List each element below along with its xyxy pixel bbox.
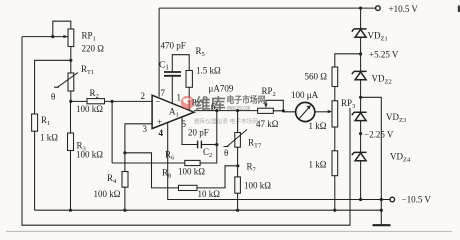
svg-text:A1: A1 bbox=[169, 107, 179, 119]
capacitor C2 20pF bbox=[198, 141, 202, 149]
node pin3 net bbox=[123, 151, 126, 154]
watermark logo ball bbox=[181, 96, 195, 110]
wire +10.5V top rail bbox=[159, 7, 375, 9]
resistor R4 bbox=[122, 172, 128, 188]
svg-text:100 μA: 100 μA bbox=[291, 90, 319, 100]
svg-text:100 kΩ: 100 kΩ bbox=[244, 181, 271, 191]
svg-text:−: − bbox=[156, 97, 161, 107]
potentiometer RP1 wiper arrow bbox=[63, 36, 68, 38]
resistor R6 bbox=[185, 160, 200, 165]
svg-text:10 kΩ: 10 kΩ bbox=[198, 189, 221, 199]
wire zener mid to ground column bbox=[361, 97, 382, 225]
node bus R7 bbox=[236, 209, 239, 212]
svg-text:220 Ω: 220 Ω bbox=[82, 44, 105, 54]
svg-text:μA709: μA709 bbox=[209, 84, 234, 94]
resistor R7 bbox=[235, 177, 241, 193]
svg-text:560 Ω: 560 Ω bbox=[305, 72, 328, 82]
node RP2 right bbox=[282, 109, 285, 112]
wire C1 bottom to pin 1 bbox=[171, 76, 173, 104]
wire 1k bottom to bus bbox=[334, 176, 336, 211]
terminal -10.5V bbox=[390, 197, 395, 202]
svg-text:3: 3 bbox=[143, 124, 148, 134]
svg-text:VDZ4: VDZ4 bbox=[390, 152, 411, 164]
svg-text:−2.25 V: −2.25 V bbox=[364, 130, 394, 140]
wire RP1 wiper line from left rail bbox=[22, 36, 64, 38]
svg-text:100 kΩ: 100 kΩ bbox=[94, 189, 121, 199]
wire RT7 to R7 bbox=[237, 147, 239, 177]
svg-text:7: 7 bbox=[161, 88, 166, 98]
svg-text:维库仪器仪表 电子市场网: 维库仪器仪表 电子市场网 bbox=[194, 118, 258, 126]
svg-text:RP3: RP3 bbox=[341, 98, 355, 110]
svg-text:RT7: RT7 bbox=[248, 138, 262, 150]
wire RT1 bottom to node bbox=[70, 91, 72, 101]
svg-text:+: + bbox=[157, 117, 162, 127]
svg-text:6: 6 bbox=[211, 102, 216, 112]
svg-text:WWW.DZSC.COM: WWW.DZSC.COM bbox=[227, 106, 250, 112]
wire 560 to RP3 bbox=[334, 87, 336, 101]
svg-text:R8: R8 bbox=[162, 167, 171, 179]
node output at C2 column bbox=[215, 109, 218, 112]
node R7 top bbox=[236, 164, 239, 167]
svg-text:C1: C1 bbox=[159, 61, 169, 72]
scan artifact bottom line bbox=[6, 230, 452, 232]
wire pin2 net drop to R6 row bbox=[111, 101, 113, 163]
meter 100uA bbox=[296, 102, 315, 121]
wire C1/R5 top link bbox=[172, 55, 189, 72]
wire node to R1 top bbox=[35, 60, 71, 114]
zener diode VDZ4 bbox=[352, 152, 367, 160]
wire R6 right to output column bbox=[200, 111, 217, 163]
wire meter to RP3 wiper bbox=[315, 111, 329, 113]
svg-text:100 kΩ: 100 kΩ bbox=[76, 104, 103, 114]
svg-text:VDZ1: VDZ1 bbox=[368, 31, 388, 43]
wire -10.5V row bbox=[335, 199, 390, 201]
node bus ground column bbox=[380, 209, 383, 212]
node bus R3 bbox=[69, 209, 72, 212]
wire R5 bottom to pin 8 bbox=[188, 87, 190, 110]
node -2.25V bbox=[359, 132, 362, 135]
svg-text:C2: C2 bbox=[203, 147, 212, 159]
resistor R5 bbox=[186, 71, 192, 88]
watermark text bbox=[194, 94, 266, 126]
node RP1 bottom bbox=[69, 59, 72, 62]
zener diode VDZ1 bbox=[352, 29, 367, 37]
resistor R2 bbox=[87, 99, 105, 104]
svg-text:RP1: RP1 bbox=[82, 31, 96, 43]
wire C2 to output column bbox=[201, 144, 216, 146]
svg-text:5: 5 bbox=[182, 119, 187, 129]
node bus 1k column bbox=[333, 209, 336, 212]
svg-text:47 kΩ: 47 kΩ bbox=[256, 119, 279, 129]
svg-text:R1: R1 bbox=[41, 115, 50, 127]
wire ground bus bbox=[35, 209, 382, 211]
resistor R1 bbox=[32, 114, 38, 131]
wire op-amp pin 3 row bbox=[125, 124, 152, 153]
ground bbox=[373, 224, 391, 226]
svg-text:4: 4 bbox=[159, 128, 164, 138]
node bus R4 bbox=[123, 209, 126, 212]
op-amp A (uA709) bbox=[152, 95, 194, 128]
resistor 560 ohm bbox=[332, 67, 338, 87]
svg-text:100 kΩ: 100 kΩ bbox=[76, 150, 103, 160]
potentiometer RP3 bbox=[332, 101, 338, 127]
resistor 1k lower bbox=[332, 151, 338, 176]
thermistor RT1 bbox=[68, 73, 74, 91]
thermistor RT7 bbox=[237, 111, 239, 133]
svg-text:R6: R6 bbox=[165, 150, 175, 162]
svg-text:VDZ3: VDZ3 bbox=[386, 112, 406, 124]
svg-text:2: 2 bbox=[141, 91, 146, 101]
wire RP2 to meter bbox=[273, 111, 295, 112]
wire R6 row left bbox=[112, 162, 185, 164]
svg-text:+5.25 V: +5.25 V bbox=[369, 50, 399, 60]
wire node to R2 bbox=[71, 100, 87, 102]
wire zener chain column bbox=[360, 8, 362, 199]
svg-text:470 pF: 470 pF bbox=[161, 41, 186, 51]
node zener bottom bbox=[359, 198, 362, 201]
node ground at -10.5 row bbox=[380, 198, 383, 201]
svg-text:θ: θ bbox=[51, 92, 55, 102]
svg-text:1.5 kΩ: 1.5 kΩ bbox=[196, 66, 221, 76]
node zener mid ground tap bbox=[359, 96, 362, 99]
wire R2 to op-amp pin 2 bbox=[105, 100, 153, 102]
wire pin3 node to R4 bbox=[124, 153, 126, 172]
wire node to R3 bbox=[70, 101, 72, 133]
wire R1 bottom to bus bbox=[34, 131, 36, 210]
svg-text:100 kΩ: 100 kΩ bbox=[178, 167, 205, 177]
node +5.25V bbox=[359, 52, 362, 55]
svg-text:RT1: RT1 bbox=[81, 64, 94, 76]
wire R3 bottom to bus bbox=[70, 151, 72, 211]
zener diode VDZ2 bbox=[352, 71, 367, 79]
resistor R8 bbox=[179, 185, 198, 190]
svg-text:8: 8 bbox=[192, 98, 197, 108]
svg-text:1 kΩ: 1 kΩ bbox=[309, 121, 327, 131]
wire pin3 node to R8 row bbox=[125, 153, 179, 188]
potentiometer RP1 bbox=[68, 29, 74, 47]
wire RP3 to 1k bbox=[334, 127, 336, 151]
svg-text:1 kΩ: 1 kΩ bbox=[309, 160, 327, 170]
node output to RT7 column bbox=[236, 109, 239, 112]
wire op-amp pin 4 drop bbox=[168, 123, 335, 200]
svg-text:电子市场网: 电子市场网 bbox=[227, 94, 266, 105]
svg-text:θ: θ bbox=[224, 148, 228, 158]
wire +5.25V tap to 560 ohm column bbox=[335, 54, 361, 67]
wire output row bbox=[194, 110, 258, 112]
svg-text:+10.5 V: +10.5 V bbox=[389, 4, 419, 14]
svg-text:−10.5 V: −10.5 V bbox=[402, 195, 432, 205]
svg-text:R5: R5 bbox=[196, 46, 205, 58]
wire RP1 feedback loop bbox=[53, 21, 71, 36]
wire R4 bottom to bus bbox=[124, 187, 126, 210]
node RP1 wiper junction bbox=[51, 35, 54, 38]
svg-text:20 pF: 20 pF bbox=[188, 128, 209, 138]
node pin2 net bbox=[111, 100, 114, 103]
resistor R3 bbox=[68, 133, 74, 151]
scan artifact right edge tick bbox=[458, 6, 460, 13]
wire R7 bottom to bus bbox=[237, 193, 239, 210]
svg-text:VDZ2: VDZ2 bbox=[372, 74, 392, 86]
wire pin 7 to rail bbox=[158, 8, 160, 97]
wire RP2 wiper loop bbox=[266, 100, 283, 110]
node bridge left bbox=[69, 100, 72, 103]
wire left rail / bottom outer loop bbox=[22, 37, 350, 226]
wire RP1 bottom to node bbox=[70, 47, 72, 74]
svg-text:1 kΩ: 1 kΩ bbox=[40, 133, 58, 143]
svg-text:R7: R7 bbox=[247, 162, 257, 174]
capacitor C1 470pF bbox=[164, 72, 181, 76]
node C2 right bbox=[215, 143, 218, 146]
zener diode VDZ3 bbox=[352, 112, 367, 120]
svg-text:1: 1 bbox=[177, 93, 182, 103]
svg-text:R4: R4 bbox=[107, 173, 117, 185]
potentiometer RP2 bbox=[258, 108, 274, 113]
wire pin5 to C2 bbox=[182, 117, 198, 145]
wire R8 right to R7 node bbox=[197, 166, 238, 188]
node rail zener top bbox=[359, 7, 362, 10]
terminal +10.5V bbox=[376, 6, 381, 11]
